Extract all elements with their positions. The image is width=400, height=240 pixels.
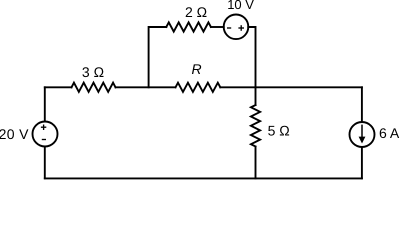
svg-text:3 Ω: 3 Ω (82, 64, 104, 80)
svg-text:10 V: 10 V (227, 0, 254, 12)
svg-text:20 V: 20 V (0, 126, 29, 142)
svg-text:2 Ω: 2 Ω (185, 4, 207, 20)
svg-text:5 Ω: 5 Ω (268, 123, 290, 139)
svg-text:6 A: 6 A (379, 125, 400, 141)
svg-text:R: R (192, 61, 202, 77)
